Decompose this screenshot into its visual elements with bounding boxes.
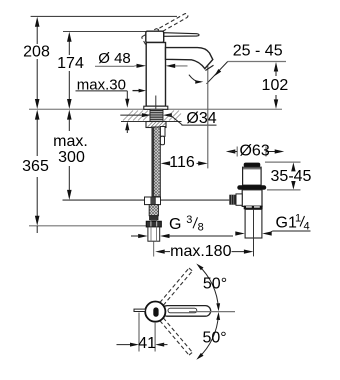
faucet: dashed lever raised position [141, 12, 191, 47]
dimension 116 [161, 154, 208, 171]
dimension 208 [23, 16, 177, 109]
svg-text:G1: G1 [276, 215, 297, 232]
top view: slot in circle [153, 307, 158, 316]
pop-up rod coupler right of hose [160, 127, 165, 137]
svg-text:174: 174 [57, 55, 84, 72]
top view: 50 swing arc upper [198, 265, 218, 308]
G3/8 connection tube [148, 227, 160, 241]
drain body [242, 190, 262, 207]
dimension Ø48 [95, 50, 188, 68]
drain linkage collar [236, 194, 242, 205]
faucet spout [166, 48, 213, 69]
drain linkage knurled knob [229, 195, 236, 205]
faucet lever (horizontal) [164, 33, 199, 37]
aerator line [205, 65, 213, 70]
top view: axis reference line [189, 311, 235, 313]
svg-text:8: 8 [198, 222, 204, 234]
top view: base circle [145, 302, 165, 322]
dimension max.30 [76, 76, 130, 133]
label G 3/8 [160, 214, 233, 238]
dimension max.300 [53, 110, 88, 200]
svg-text:116: 116 [169, 154, 195, 171]
svg-text:208: 208 [23, 43, 50, 60]
top view: dashed lever at -50 (down) [160, 318, 193, 355]
deck / countertop line [29, 108, 282, 110]
threaded shank through deck [150, 109, 163, 121]
svg-text:50°: 50° [203, 276, 227, 293]
svg-text:max.: max. [53, 133, 88, 150]
base plate on deck [144, 106, 168, 109]
svg-text:35-45: 35-45 [271, 168, 312, 185]
pop-up rod (horizontal) + max.300 lower extension [63, 199, 230, 201]
dimension max.180 [155, 243, 253, 260]
dimension 174 [57, 32, 146, 110]
dimension 102 [262, 62, 289, 109]
dimension Ø34 [120, 110, 216, 127]
flow direction arc arrow at spout [189, 75, 203, 84]
svg-text:25 - 45: 25 - 45 [233, 43, 283, 60]
faucet hub (cartridge housing) [146, 31, 164, 42]
svg-text:50°: 50° [202, 330, 226, 347]
svg-text:1: 1 [295, 213, 301, 225]
faucet body [146, 43, 165, 107]
top view: 50 swing arc lower [198, 315, 218, 358]
svg-text:41: 41 [138, 335, 156, 352]
top view: left tick [134, 309, 145, 311]
pull rod center line [155, 96, 157, 111]
svg-text:365: 365 [22, 158, 49, 175]
svg-text:max.180: max.180 [170, 243, 231, 260]
drain tail pipe [244, 206, 263, 210]
G3/8 nut [146, 221, 161, 227]
hose end fitting [150, 216, 159, 220]
svg-text:Ø 48: Ø 48 [98, 50, 131, 67]
dimension 365 [22, 110, 146, 233]
svg-text:300: 300 [58, 149, 85, 166]
top view: dashed lever at +50 (up) [160, 268, 193, 305]
svg-text:Ø34: Ø34 [186, 110, 216, 127]
svg-text:3: 3 [186, 214, 192, 226]
svg-text:G: G [169, 216, 181, 233]
dimension 25 - 45 [207, 43, 287, 84]
flexible supply hose (braided) upper [152, 127, 160, 197]
mounting washer and nut [146, 122, 166, 128]
drain pop-up plug head [244, 163, 261, 168]
svg-text:102: 102 [262, 77, 289, 94]
top view: lever (plan) [162, 306, 211, 317]
supply hose lower braid [149, 205, 158, 216]
spout reach extension line [207, 66, 209, 169]
label G1 1/4 [235, 213, 310, 236]
pull-rod knob on body [133, 89, 147, 93]
drain flange [237, 185, 266, 190]
svg-text:Ø63: Ø63 [239, 143, 269, 160]
small arrow at hose tube left [131, 234, 148, 238]
dimension 35-45 [265, 162, 312, 190]
dimension 41 [117, 313, 168, 353]
pop-up rod linkage block [145, 197, 161, 205]
drain upper cylinder [243, 167, 262, 185]
deck slab cross-section with hatch [121, 111, 182, 122]
drain: Ø63 dimension [226, 143, 284, 160]
